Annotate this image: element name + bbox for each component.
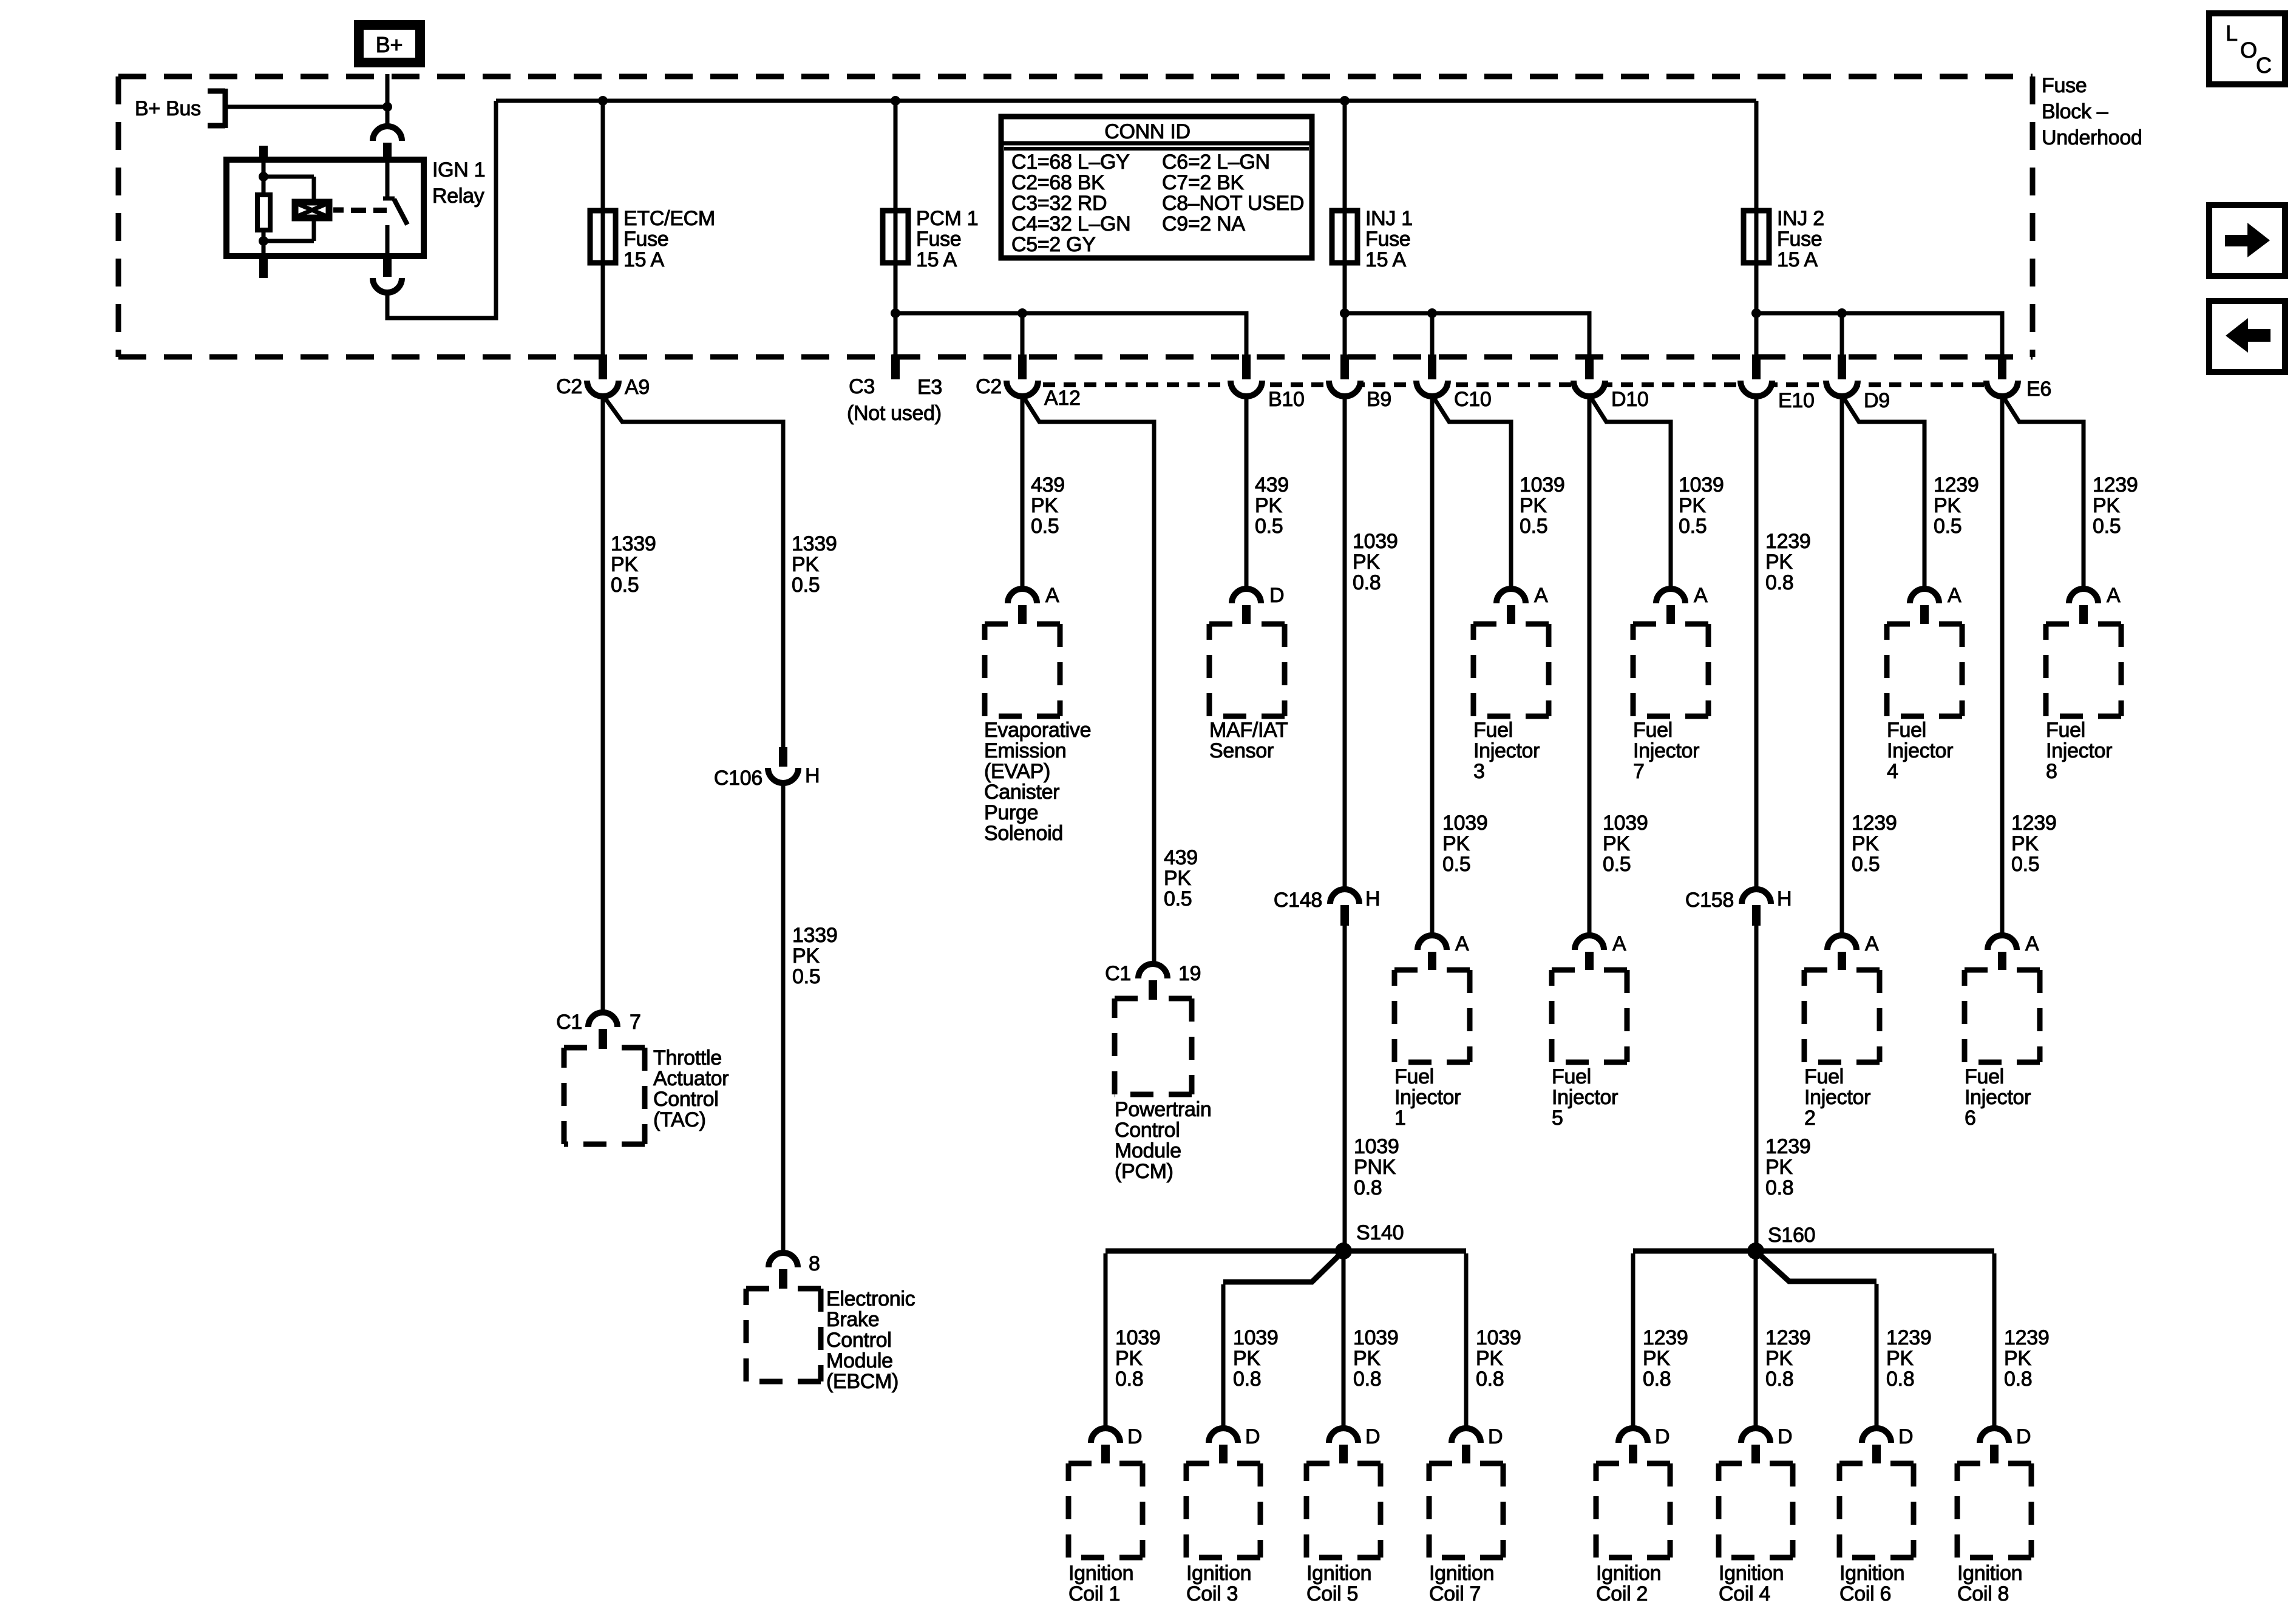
connector pin 8 at EBCM [769,1253,798,1267]
svg-text:Coil 8: Coil 8 [1957,1582,2009,1605]
svg-text:D: D [1655,1425,1669,1448]
svg-text:CONN ID: CONN ID [1104,120,1190,143]
svg-text:PNK: PNK [1354,1156,1396,1179]
svg-text:D: D [1365,1425,1380,1448]
svg-text:PK: PK [1353,551,1380,574]
svg-text:7: 7 [1633,760,1645,783]
svg-text:Coil 7: Coil 7 [1429,1582,1481,1605]
wire drop to connector C10 [1430,313,1435,357]
wire relay output up to fuse bus [387,101,496,318]
relay pin 30 stub [383,143,392,160]
svg-text:Block –: Block – [2042,100,2108,123]
svg-text:1239: 1239 [1886,1326,1931,1349]
junction PCM1 bus at fuse line [891,308,900,318]
svg-text:C2=68 BK: C2=68 BK [1011,171,1105,194]
svg-text:0.5: 0.5 [1852,853,1880,876]
relay internal junction (bottom) [259,236,268,246]
relay internal junction (top) [259,172,268,181]
connector C1 pin 7 at TAC [588,1012,617,1027]
Ignition Coil 3 box [1186,1463,1260,1558]
svg-text:D: D [1778,1425,1792,1448]
connector A at Fuel Injector 4 [1910,589,1939,603]
svg-text:Coil 5: Coil 5 [1306,1582,1358,1605]
svg-text:0.5: 0.5 [1164,887,1192,910]
svg-text:Fuse: Fuse [1777,228,1822,251]
svg-text:H: H [1365,887,1380,910]
wire 439 PK 0.5 from B10 to MAF/IAT sensor [1245,395,1249,589]
svg-text:439: 439 [1164,846,1198,869]
wire S160 to ignition coil 4 [1754,1251,1758,1428]
svg-text:E10: E10 [1778,389,1815,412]
svg-text:A: A [1694,584,1708,607]
svg-text:A: A [1948,584,1961,607]
svg-text:4: 4 [1887,760,1898,783]
wire from 2618 to fuel injector 5 [1588,395,1592,936]
svg-text:15 A: 15 A [1777,248,1818,271]
relay coil (solenoid X-box) [295,202,329,218]
connector D9 at fuse block [1826,381,1858,396]
svg-text:Module: Module [826,1349,893,1372]
splice S160 [1747,1242,1764,1259]
svg-text:1239: 1239 [1934,473,1978,497]
wire S160 to ignition coil 8 [1756,1249,1994,1254]
svg-text:D9: D9 [1864,389,1890,412]
wire main fuse feed bus [496,99,1756,103]
svg-text:D10: D10 [1611,388,1648,411]
wire INJ 1 fuse output bus [1345,313,1589,357]
connector A at EVAP solenoid [1008,589,1037,603]
svg-text:0.5: 0.5 [2011,853,2039,876]
junction B+ node [382,102,392,112]
connector A at Fuel Injector 3 [1496,589,1526,603]
svg-text:Injector: Injector [1552,1086,1618,1109]
svg-text:INJ 2: INJ 2 [1777,207,1824,230]
wire bus down through INJ 2 fuse to fuse block exit [1754,101,1759,357]
Throttle Actuator Control (TAC) box [564,1048,645,1144]
svg-text:Underhood: Underhood [2042,126,2142,149]
svg-text:8: 8 [809,1252,820,1275]
svg-text:Injector: Injector [1394,1086,1461,1109]
svg-text:H: H [1777,887,1792,910]
svg-text:0.5: 0.5 [1603,853,1631,876]
svg-text:C2: C2 [556,375,582,398]
svg-text:0.8: 0.8 [1765,1176,1793,1199]
svg-text:Fuse: Fuse [623,228,668,251]
wire branch from 3298 to fuel injector 8 [2002,395,2084,589]
svg-text:1339: 1339 [792,532,837,555]
svg-text:Injector: Injector [1887,739,1953,762]
svg-text:D: D [2016,1425,2031,1448]
wire B+ terminal down to relay [385,74,390,127]
svg-text:C5=2 GY: C5=2 GY [1011,233,1096,256]
wire 1239 PK 0.8 from C158 to splice S160 [1754,926,1759,1251]
EVAP Canister Purge Solenoid box [985,624,1060,716]
connector D10 at fuse block [1574,381,1605,396]
wire from 2359 to fuel injector 1 [1430,395,1435,936]
svg-text:0.8: 0.8 [1765,571,1793,594]
svg-text:7: 7 [630,1011,641,1034]
svg-text:PK: PK [1765,1156,1793,1179]
svg-text:Coil 1: Coil 1 [1068,1582,1120,1605]
svg-text:PK: PK [1765,1347,1793,1370]
Fuel Injector 5 box [1552,970,1627,1062]
svg-text:B10: B10 [1268,388,1305,411]
svg-text:Ignition: Ignition [1596,1562,1661,1585]
connector D at MAF/IAT sensor [1232,589,1261,603]
svg-text:INJ 1: INJ 1 [1365,207,1413,230]
wire branch from 3034 to fuel injector 4 [1842,395,1924,589]
svg-text:0.8: 0.8 [1353,1368,1381,1391]
svg-text:A12: A12 [1044,387,1081,410]
svg-text:A: A [2025,932,2039,955]
svg-text:C9=2 NA: C9=2 NA [1162,212,1245,236]
svg-text:A: A [1865,932,1879,955]
svg-text:(EVAP): (EVAP) [984,760,1050,783]
svg-text:B+: B+ [376,32,402,57]
svg-text:PK: PK [1643,1347,1670,1370]
svg-text:PK: PK [1886,1347,1914,1370]
svg-text:0.5: 0.5 [1934,515,1961,538]
connector D at Ignition Coil 8 [1980,1428,2009,1443]
splice S140 [1335,1242,1352,1259]
svg-text:MAF/IAT: MAF/IAT [1209,719,1288,742]
svg-text:0.5: 0.5 [611,574,639,597]
IGN 1 Relay connector (top, female on wire) [373,126,402,141]
svg-text:PK: PK [1164,867,1191,890]
svg-text:Module: Module [1115,1139,1181,1162]
Ignition Coil 5 box [1306,1463,1381,1558]
svg-text:Ignition: Ignition [1957,1562,2022,1585]
wire S160 to ignition coil 6 [1756,1251,1877,1281]
wire from 3298 to fuel injector 6 [2000,395,2005,936]
relay resistor [257,195,270,230]
svg-text:1239: 1239 [2093,473,2138,497]
connector A at Fuel Injector 7 [1656,589,1685,603]
connector D at Ignition Coil 1 [1091,1428,1120,1443]
svg-text:Ignition: Ignition [1429,1562,1494,1585]
svg-text:Coil 2: Coil 2 [1596,1582,1648,1605]
svg-text:1039: 1039 [1520,473,1564,497]
relay coil X diagonals [296,203,328,217]
svg-text:C8–NOT USED: C8–NOT USED [1162,192,1304,215]
Ignition Coil 6 box [1839,1463,1914,1558]
svg-text:PK: PK [1934,494,1961,517]
inline connector C106 pin H [779,747,787,767]
svg-text:0.8: 0.8 [1765,1368,1793,1391]
svg-text:Ignition: Ignition [1839,1562,1904,1585]
svg-text:0.8: 0.8 [2004,1368,2032,1391]
wire 1339 PK 0.5 branch from A9 to C106 [603,395,783,747]
wire drop to connector D9 [1840,313,1844,357]
svg-text:(EBCM): (EBCM) [826,1370,898,1393]
connector A at Fuel Injector 5 [1575,935,1604,950]
svg-text:A: A [1455,932,1469,955]
svg-text:0.8: 0.8 [1886,1368,1914,1391]
svg-text:0.5: 0.5 [1031,515,1059,538]
svg-text:ETC/ECM: ETC/ECM [623,207,715,230]
inline connector C158 pin H [1754,395,1759,890]
Fuel Injector 4 box [1887,624,1962,716]
inline connector C148 pin H [1343,395,1347,890]
Ignition Coil 2 box [1596,1463,1670,1558]
fuse PCM 1 15 A [883,211,908,263]
svg-text:Fuel: Fuel [1804,1065,1844,1088]
connector A12 at fuse block [1007,381,1038,396]
MAF/IAT Sensor box [1209,624,1285,716]
connector C1 pin 19 at PCM [1138,964,1167,978]
svg-text:Control: Control [826,1329,892,1352]
svg-text:439: 439 [1031,473,1065,497]
svg-text:E6: E6 [2026,378,2051,401]
wire 1339 PK 0.5 from A9 to TAC C1-7 [601,395,605,1012]
connector D at Ignition Coil 6 [1862,1428,1891,1443]
svg-text:1239: 1239 [2011,812,2056,835]
wire 1039 PNK 0.8 from C148 to splice S140 [1343,926,1347,1251]
svg-text:Coil 3: Coil 3 [1186,1582,1238,1605]
svg-text:Control: Control [653,1088,719,1111]
wire S140 to ignition coil 7 [1343,1249,1466,1254]
Powertrain Control Module (PCM) box [1115,998,1192,1094]
Ignition Coil 1 box [1068,1463,1143,1558]
svg-text:Injector: Injector [1965,1086,2031,1109]
svg-text:1039: 1039 [1353,530,1398,553]
svg-text:C6=2 L–GN: C6=2 L–GN [1162,151,1270,174]
svg-text:1: 1 [1394,1107,1406,1130]
svg-text:Solenoid: Solenoid [984,822,1063,845]
svg-text:Brake: Brake [826,1308,879,1331]
Electronic Brake Control Module (EBCM) box [746,1289,821,1381]
Fuel Injector 8 box [2046,624,2121,716]
wire branch from 2618 to fuel injector 7 [1589,395,1671,589]
wire S140 to ignition coil 3 [1223,1251,1343,1282]
svg-text:0.5: 0.5 [1442,853,1470,876]
svg-text:Coil 4: Coil 4 [1719,1582,1770,1605]
junction INJ1 bus / C10 drop [1427,308,1437,318]
relay coil branch wires [263,175,314,179]
connector A at Fuel Injector 2 [1827,935,1856,950]
svg-text:A: A [1612,932,1626,955]
svg-text:C2: C2 [976,375,1002,398]
svg-text:Fuel: Fuel [1473,719,1513,742]
svg-text:0.5: 0.5 [2093,515,2121,538]
svg-text:0.5: 0.5 [792,574,820,597]
svg-text:PK: PK [1233,1347,1260,1370]
svg-text:PK: PK [1442,832,1470,855]
svg-text:Sensor: Sensor [1209,739,1274,762]
svg-text:1039: 1039 [1354,1135,1399,1158]
junction INJ1 bus at fuse line [1340,308,1350,318]
svg-text:E3: E3 [917,376,942,399]
svg-text:C1: C1 [1105,962,1131,985]
wire 439 PK 0.5 branch from A12 to PCM C1-19 [1022,395,1154,964]
svg-text:C10: C10 [1454,388,1491,411]
Ignition Coil 7 box [1429,1463,1503,1558]
svg-text:PK: PK [2004,1347,2031,1370]
svg-text:0.8: 0.8 [1476,1368,1504,1391]
svg-text:Actuator: Actuator [653,1067,729,1090]
connector B10 at fuse block [1231,381,1262,396]
connector A at Fuel Injector 1 [1418,935,1447,950]
svg-text:D: D [1488,1425,1503,1448]
junction bus / ETC-ECM fuse [598,96,608,106]
svg-text:O: O [2240,38,2257,63]
svg-text:PK: PK [611,553,638,576]
svg-text:PK: PK [1603,832,1630,855]
svg-text:Fuel: Fuel [1552,1065,1591,1088]
connector A at Fuel Injector 8 [2069,589,2098,603]
junction bus / PCM 1 fuse [891,96,900,106]
svg-text:PK: PK [1852,832,1879,855]
svg-text:1239: 1239 [1765,1326,1810,1349]
svg-text:1239: 1239 [2004,1326,2049,1349]
svg-text:IGN 1: IGN 1 [432,158,485,181]
svg-text:3: 3 [1473,760,1485,783]
Ignition Coil 4 box [1719,1463,1793,1558]
svg-text:2: 2 [1804,1107,1816,1130]
Fuel Injector 6 box [1965,970,2040,1062]
svg-text:A: A [2107,584,2121,607]
svg-text:C148: C148 [1274,889,1322,912]
Fuse Block - Underhood dashed box [118,76,2033,357]
back arrow icon [2209,301,2285,372]
svg-text:Throttle: Throttle [653,1046,722,1070]
svg-text:S160: S160 [1768,1224,1815,1247]
wire S140 to ignition coil 5 [1342,1251,1346,1428]
wire branch from 2359 to fuel injector 3 [1432,395,1511,589]
svg-text:Purge: Purge [984,801,1038,824]
svg-text:D: D [1898,1425,1913,1448]
relay coil pin stub (bottom left) [259,256,268,278]
svg-text:(TAC): (TAC) [653,1108,706,1131]
svg-text:Ignition: Ignition [1306,1562,1371,1585]
svg-text:PK: PK [1115,1347,1143,1370]
svg-text:S140: S140 [1356,1221,1404,1244]
svg-text:D: D [1127,1425,1142,1448]
wire S140 to ignition coil 1 [1106,1249,1343,1254]
wire bus down through INJ 1 fuse to fuse block exit [1343,101,1347,357]
svg-text:1039: 1039 [1115,1326,1160,1349]
connector E3 at fuse block [891,354,900,379]
wire PCM 1 fuse output bus [895,313,1246,357]
svg-text:1239: 1239 [1765,1135,1810,1158]
connector A9 at fuse block [587,381,619,396]
junction PCM1 bus / A12 drop [1017,308,1027,318]
svg-text:L: L [2226,21,2238,46]
svg-text:C: C [2256,53,2272,78]
junction INJ2 bus at fuse line [1751,308,1761,318]
svg-text:8: 8 [2046,760,2057,783]
svg-text:1039: 1039 [1233,1326,1278,1349]
svg-text:0.5: 0.5 [1520,515,1547,538]
svg-text:0.8: 0.8 [1643,1368,1671,1391]
junction bus / INJ 1 fuse [1340,96,1350,106]
IGN 1 Relay box [226,160,424,256]
relay coil pin stub (top left) [259,146,268,160]
svg-text:C1=68 L–GY: C1=68 L–GY [1011,151,1130,174]
svg-text:Fuse: Fuse [916,228,961,251]
Ignition Coil 8 box [1957,1463,2031,1558]
relay switch [385,160,390,197]
wire B+ Bus to B+ node [225,105,389,109]
svg-text:Injector: Injector [1473,739,1540,762]
svg-text:B9: B9 [1367,388,1391,411]
svg-text:C106: C106 [714,767,763,790]
connector C10 at fuse block [1416,381,1448,396]
svg-text:D: D [1269,584,1284,607]
svg-text:0.5: 0.5 [792,965,820,988]
connector E10 at fuse block [1741,381,1772,396]
svg-text:Ignition: Ignition [1068,1562,1133,1585]
relay switch output pin (bottom) [383,257,392,277]
svg-text:Fuse: Fuse [1365,228,1410,251]
svg-text:1339: 1339 [792,924,837,947]
svg-text:1239: 1239 [1643,1326,1688,1349]
fuse INJ 1 15 A [1332,211,1357,263]
svg-text:A9: A9 [625,376,650,399]
forward arrow icon [2209,205,2285,276]
svg-text:Ignition: Ignition [1719,1562,1784,1585]
connector D at Ignition Coil 4 [1741,1428,1770,1443]
svg-text:PK: PK [1520,494,1547,517]
svg-text:Injector: Injector [1804,1086,1870,1109]
svg-text:1039: 1039 [1603,812,1648,835]
Fuel Injector 2 box [1804,970,1880,1062]
svg-text:PK: PK [1765,551,1793,574]
svg-text:Injector: Injector [1633,739,1699,762]
Fuel Injector 7 box [1633,624,1708,716]
svg-text:15 A: 15 A [916,248,957,271]
svg-text:Injector: Injector [2046,739,2112,762]
svg-text:Ignition: Ignition [1186,1562,1251,1585]
svg-text:A: A [1045,584,1059,607]
svg-text:Fuel: Fuel [1394,1065,1434,1088]
svg-text:6: 6 [1965,1107,1976,1130]
svg-text:15 A: 15 A [1365,248,1406,271]
svg-text:1239: 1239 [1765,530,1810,553]
svg-text:Coil 6: Coil 6 [1839,1582,1891,1605]
connector D at Ignition Coil 5 [1329,1428,1358,1443]
LOC locator icon [2209,13,2285,84]
svg-text:PK: PK [1476,1347,1503,1370]
relay output connector (female on wire) [373,278,402,293]
wire 1339 PK 0.5 from C106 to EBCM pin 8 [781,783,786,1252]
svg-text:0.8: 0.8 [1354,1176,1382,1199]
svg-text:Powertrain: Powertrain [1115,1098,1212,1121]
junction INJ2 bus / D9 drop [1837,308,1847,318]
svg-text:15 A: 15 A [623,248,664,271]
svg-text:1039: 1039 [1476,1326,1521,1349]
svg-text:A: A [1534,584,1548,607]
svg-text:Fuse: Fuse [2042,74,2087,97]
Fuel Injector 3 box [1473,624,1549,716]
svg-text:B+ Bus: B+ Bus [135,97,201,120]
svg-text:H: H [805,764,820,787]
fuse INJ 2 15 A [1744,211,1769,263]
connector D at Ignition Coil 3 [1209,1428,1238,1443]
relay internal coil circuit wires [262,160,266,197]
svg-text:Fuel: Fuel [1965,1065,2004,1088]
svg-text:PK: PK [792,553,819,576]
svg-text:D: D [1245,1425,1260,1448]
svg-text:Relay: Relay [432,185,484,208]
svg-text:1039: 1039 [1679,473,1724,497]
relay actuation dashed link [333,208,344,213]
svg-text:Electronic: Electronic [826,1287,915,1310]
wire 439 PK 0.5 from A12 to EVAP solenoid [1021,395,1025,589]
svg-text:0.8: 0.8 [1233,1368,1261,1391]
svg-text:PK: PK [1255,494,1282,517]
svg-text:C158: C158 [1685,889,1734,912]
